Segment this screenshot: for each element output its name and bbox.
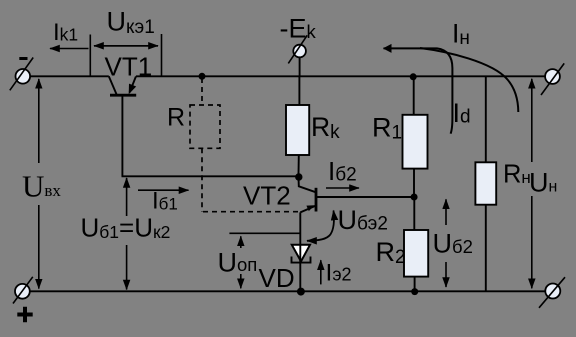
svg-text:VT1: VT1	[105, 52, 153, 82]
svg-text:VD: VD	[259, 263, 295, 293]
svg-text:R: R	[167, 104, 185, 132]
svg-text:VT2: VT2	[243, 181, 291, 211]
svg-text:Iэ2: Iэ2	[326, 260, 352, 287]
